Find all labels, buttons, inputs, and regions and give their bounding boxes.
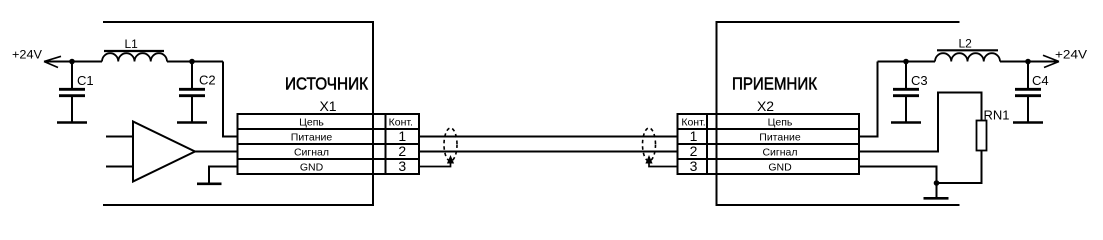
inductor L2: [935, 37, 1000, 62]
svg-text:Сигнал: Сигнал: [294, 147, 329, 159]
inductor L1: [102, 37, 167, 62]
shield ellipse left: [444, 128, 457, 161]
svg-text:C4: C4: [1032, 73, 1049, 88]
svg-text:X1: X1: [319, 98, 336, 114]
node junction dot C3: [903, 59, 909, 65]
shield arrow left: [447, 155, 454, 164]
svg-text:+24V: +24V: [1055, 48, 1087, 62]
node junction dot C1: [69, 59, 75, 65]
svg-text:Питание: Питание: [291, 132, 333, 144]
wire +24V arrow right: [1043, 55, 1059, 67]
wire X2 pin1 riser to rail: [859, 62, 878, 137]
svg-text:Конт.: Конт.: [389, 117, 413, 129]
connector table X1: [238, 114, 420, 174]
svg-text:2: 2: [398, 143, 406, 159]
svg-text:GND: GND: [768, 162, 792, 174]
svg-text:1: 1: [398, 128, 406, 144]
wire left rail segment arrow to L1: [44, 61, 102, 63]
wire cable conductor 2: [419, 151, 678, 153]
ground bar under C4: [1013, 121, 1043, 124]
capacitor C1: [59, 62, 94, 122]
svg-text:GND: GND: [300, 162, 324, 174]
shield arrow right: [645, 155, 652, 164]
capacitor C2: [179, 62, 216, 122]
node +24V label right: [1055, 48, 1087, 62]
svg-text:Цепь: Цепь: [299, 117, 324, 129]
ground bar under C3: [891, 121, 921, 124]
wire right rail: [878, 61, 936, 63]
ground bar under C2: [177, 121, 207, 124]
svg-text:ИСТОЧНИК: ИСТОЧНИК: [285, 74, 369, 94]
ground bar right: [924, 197, 949, 200]
wire op-amp output to X1 pin2: [195, 151, 238, 153]
ground under op-amp: [197, 183, 222, 186]
box receiver device ПРИЕМНИК: [717, 22, 960, 205]
wire rail L2 to arrow: [1000, 61, 1058, 63]
ground bar under C1: [57, 121, 87, 124]
svg-text:3: 3: [690, 158, 698, 174]
node junction dot C2: [189, 59, 195, 65]
svg-text:RN1: RN1: [984, 108, 1010, 123]
svg-text:Конт.: Конт.: [681, 117, 705, 129]
wire riser rail to pin1 X1: [223, 62, 238, 137]
wire cable conductor 1: [419, 136, 678, 138]
svg-text:C1: C1: [77, 73, 94, 88]
node junction dot ground: [934, 180, 940, 186]
svg-text:C3: C3: [911, 73, 928, 88]
wire X2 pin2 to RN1 top route: [859, 93, 982, 152]
svg-text:L2: L2: [959, 37, 973, 51]
wire +24V arrow left: [44, 56, 61, 67]
svg-text:1: 1: [690, 128, 698, 144]
capacitor C3: [893, 62, 928, 122]
wire X1 pin3 shield stub: [419, 161, 451, 167]
wire rail L1 to riser corner: [167, 61, 223, 63]
svg-text:L1: L1: [125, 37, 139, 51]
svg-text:X2: X2: [757, 98, 774, 114]
svg-text:Цепь: Цепь: [768, 117, 793, 129]
capacitor C4: [1015, 62, 1049, 122]
resistor RN1: [977, 121, 987, 151]
svg-text:Сигнал: Сигнал: [762, 147, 797, 159]
op-amp U1 buffer: [106, 122, 195, 182]
svg-text:+24V: +24V: [12, 48, 42, 62]
svg-text:2: 2: [690, 143, 698, 159]
connector table X2: [678, 114, 860, 174]
box source device ИСТОЧНИК: [103, 22, 373, 205]
svg-text:ПРИЕМНИК: ПРИЕМНИК: [732, 74, 818, 94]
wire X1 pin3 to ground: [209, 167, 238, 183]
shield ellipse right: [643, 128, 656, 161]
node junction dot C4: [1025, 59, 1031, 65]
svg-text:Питание: Питание: [759, 132, 801, 144]
svg-text:3: 3: [398, 158, 406, 174]
wire X2 pin3 shield stub: [649, 161, 678, 167]
wire X2 pin3 to junction: [859, 167, 937, 198]
node +24V label left: [12, 48, 42, 62]
svg-text:C2: C2: [199, 73, 216, 88]
wire RN1 bottom to junction: [937, 151, 982, 184]
